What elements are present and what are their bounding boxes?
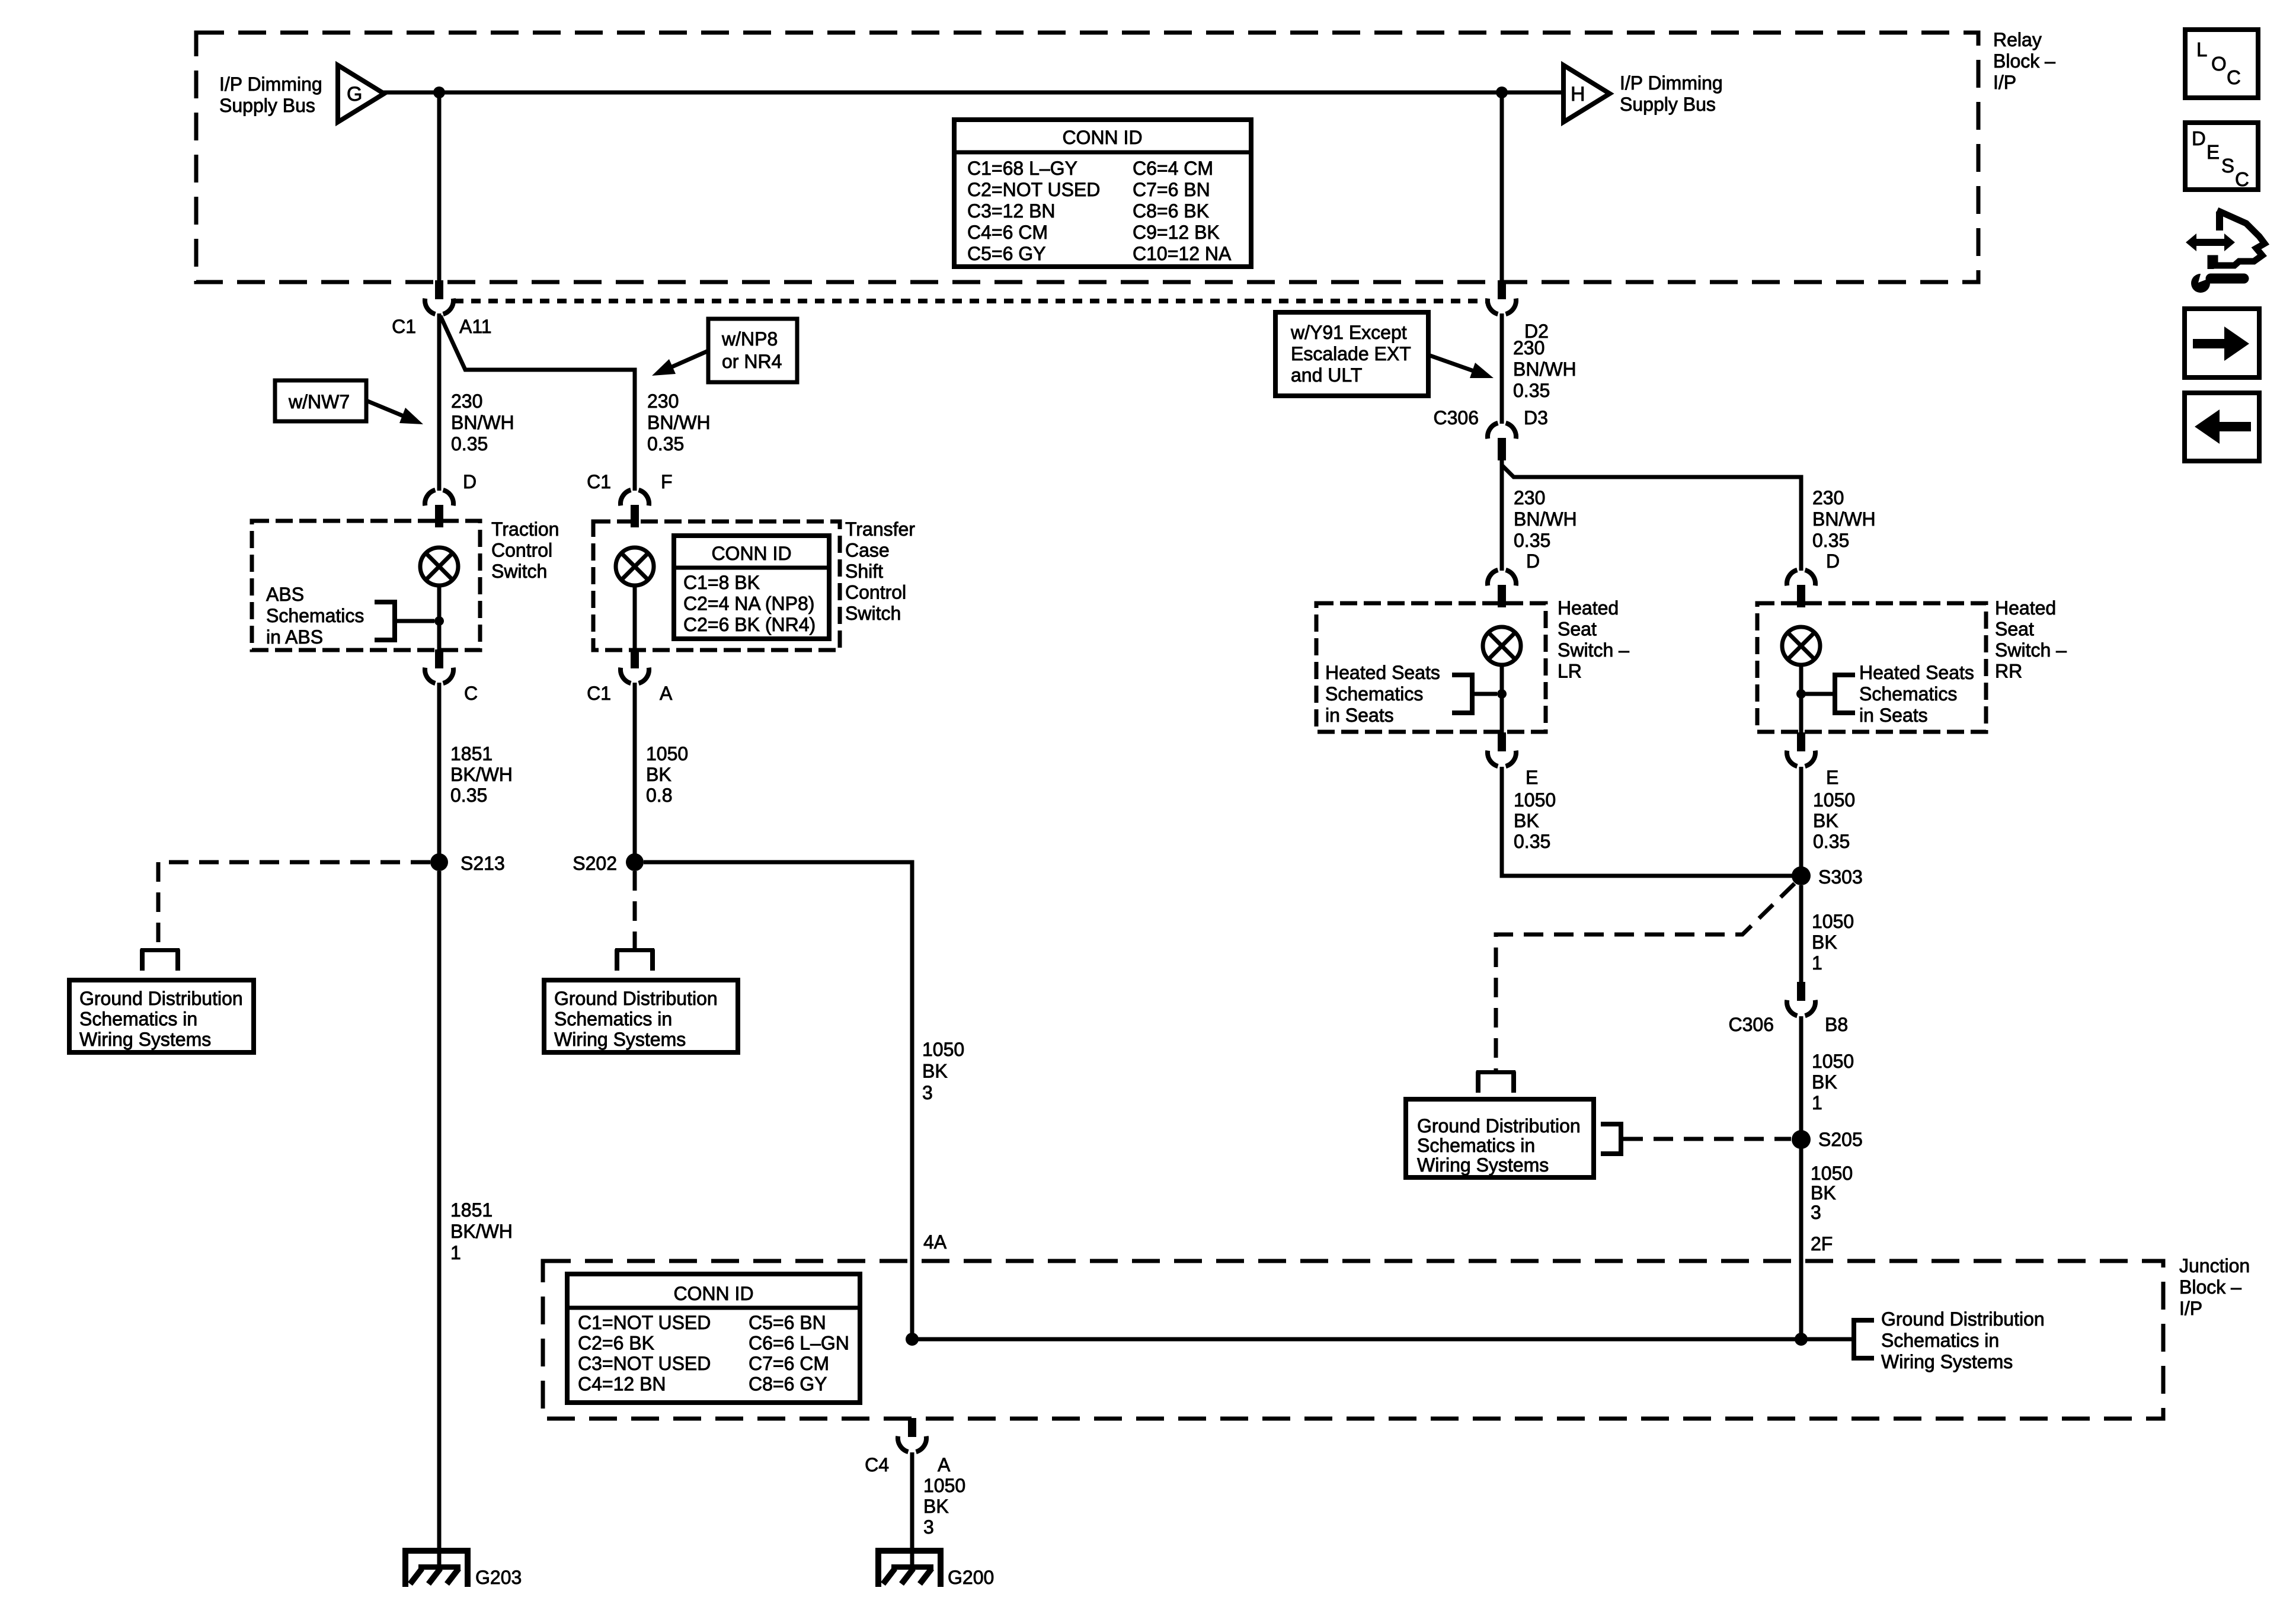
- svg-text:BK: BK: [1812, 1071, 1837, 1093]
- svg-text:Schematics in: Schematics in: [554, 1009, 672, 1030]
- svg-text:0.35: 0.35: [1513, 380, 1550, 401]
- wire lamp to connector E (LR): [1500, 664, 1504, 733]
- svg-text:BK: BK: [646, 764, 671, 785]
- svg-text:Shift: Shift: [845, 561, 883, 582]
- label 1851 BK/WH 0.35: [450, 743, 513, 806]
- wire I/P dimming supply bus: [383, 91, 1563, 95]
- svg-text:S202: S202: [573, 853, 617, 874]
- ground distribution schematics box (middle): [544, 980, 738, 1052]
- label D pin: [463, 471, 477, 492]
- svg-text:230: 230: [1812, 487, 1844, 508]
- wire 1050 BK to S303 (RR): [1799, 767, 1803, 876]
- label Ground Distribution Schematics in Wiring Systems (junction): [1881, 1308, 2045, 1372]
- svg-text:S: S: [2221, 155, 2234, 177]
- svg-text:Schematics in: Schematics in: [1417, 1135, 1535, 1156]
- connector C4/A junction block: [898, 1418, 926, 1452]
- svg-text:1050: 1050: [1811, 1163, 1853, 1184]
- svg-text:Seat: Seat: [1558, 619, 1597, 640]
- svg-text:Switch: Switch: [491, 561, 547, 582]
- icon LOC box: [2185, 30, 2258, 98]
- svg-text:C3=12 BN: C3=12 BN: [967, 200, 1056, 222]
- svg-text:1050: 1050: [1812, 1051, 1854, 1072]
- connector E heated seat RR: [1787, 732, 1815, 766]
- label E pin (RR): [1826, 767, 1838, 788]
- svg-text:C1=NOT USED: C1=NOT USED: [578, 1312, 711, 1333]
- node heated seats tap RR: [1796, 689, 1806, 699]
- ground distribution schematics box (left): [69, 980, 254, 1052]
- label C1 (F connector): [587, 471, 611, 492]
- label C306 (B8): [1729, 1014, 1774, 1035]
- svg-text:BK: BK: [1514, 810, 1539, 831]
- svg-text:G203: G203: [475, 1567, 522, 1588]
- wire bus to connector C1: [437, 92, 442, 283]
- svg-text:C8=6 GY: C8=6 GY: [749, 1374, 827, 1395]
- svg-text:w/NP8: w/NP8: [721, 328, 778, 350]
- svg-text:C2=6 BK (NR4): C2=6 BK (NR4): [683, 614, 816, 635]
- svg-text:3: 3: [1811, 1202, 1821, 1223]
- CONN ID table (transfer case): [674, 536, 829, 639]
- ground distribution cap bracket (left): [140, 948, 180, 971]
- svg-text:w/NW7: w/NW7: [288, 391, 350, 412]
- svg-text:w/Y91 Except: w/Y91 Except: [1290, 322, 1407, 343]
- wire bus to connector D2: [1500, 92, 1504, 283]
- label Traction Control Switch: [491, 518, 559, 582]
- wire B8 to S205: [1799, 1016, 1803, 1131]
- label A11: [459, 316, 492, 337]
- wire 1050 BK 3 to G200: [910, 1452, 914, 1551]
- svg-text:Relay: Relay: [1993, 29, 2042, 50]
- label C1 (A connector): [587, 683, 611, 704]
- svg-text:2F: 2F: [1811, 1233, 1833, 1254]
- svg-text:Block –: Block –: [2179, 1276, 2241, 1298]
- wire 230 BN/WH to traction switch: [437, 313, 442, 491]
- svg-text:C1: C1: [587, 471, 611, 492]
- svg-text:0.8: 0.8: [646, 785, 672, 806]
- icon forward arrow box: [2185, 309, 2259, 377]
- splice S205: [1792, 1130, 1811, 1149]
- splice S213: [430, 853, 448, 871]
- svg-text:D: D: [1826, 550, 1840, 572]
- svg-text:D3: D3: [1524, 407, 1548, 428]
- svg-text:C7=6 CM: C7=6 CM: [749, 1353, 829, 1374]
- svg-text:BN/WH: BN/WH: [1812, 508, 1876, 530]
- svg-text:S205: S205: [1818, 1129, 1863, 1150]
- svg-text:1050: 1050: [1813, 789, 1855, 811]
- connector C1/A transfer case: [621, 649, 649, 683]
- node ABS tap: [434, 616, 444, 626]
- ground G200: [875, 1548, 994, 1588]
- svg-text:230: 230: [647, 391, 679, 412]
- wire lamp to connector E (RR): [1799, 664, 1803, 733]
- svg-text:C4: C4: [865, 1454, 889, 1475]
- svg-text:BN/WH: BN/WH: [647, 412, 711, 433]
- wire 1851 BK/WH to S213: [437, 683, 442, 854]
- svg-text:1: 1: [1812, 1092, 1822, 1113]
- label 1050 BK 0.35 (LR): [1514, 789, 1556, 852]
- label I/P Dimming Supply Bus (right): [1620, 72, 1723, 115]
- connector D traction switch: [425, 490, 453, 527]
- label 1050 BK 1 (B8): [1812, 1051, 1854, 1113]
- indicator lamp traction switch: [420, 548, 458, 585]
- wire branch A11 to transfer case: [440, 316, 635, 491]
- svg-text:C4=12 BN: C4=12 BN: [578, 1374, 666, 1395]
- svg-text:CONN ID: CONN ID: [673, 1283, 753, 1304]
- svg-text:Switch: Switch: [845, 603, 901, 624]
- svg-text:0.35: 0.35: [1812, 530, 1849, 551]
- svg-text:C6=6 L–GN: C6=6 L–GN: [749, 1333, 849, 1354]
- svg-text:D: D: [2192, 127, 2206, 149]
- icon DESC box: [2185, 123, 2258, 190]
- label 230 BN/WH 0.35 (left): [451, 391, 514, 454]
- svg-text:C10=12 NA: C10=12 NA: [1133, 243, 1232, 264]
- svg-text:G200: G200: [948, 1567, 994, 1588]
- callout w/NP8 or NR4: [652, 319, 797, 382]
- svg-text:1050: 1050: [646, 743, 688, 764]
- label C pin: [464, 683, 478, 704]
- svg-text:1: 1: [450, 1242, 461, 1263]
- svg-text:C4=6 CM: C4=6 CM: [967, 222, 1048, 243]
- label Transfer Case Shift Control Switch: [845, 518, 915, 624]
- icon diagnostic wrench: [2186, 210, 2265, 293]
- CONN ID table (junction block): [567, 1274, 860, 1403]
- svg-text:BK/WH: BK/WH: [450, 1221, 513, 1242]
- svg-text:D: D: [1526, 550, 1540, 572]
- connector C306 D3: [1488, 423, 1516, 460]
- label A pin (C4): [938, 1454, 951, 1475]
- svg-text:Ground Distribution: Ground Distribution: [1417, 1115, 1581, 1137]
- svg-text:BK/WH: BK/WH: [450, 764, 513, 785]
- label S205: [1818, 1129, 1863, 1150]
- label Heated Seats Schematics in Seats (LR): [1325, 662, 1440, 726]
- label E pin (LR): [1526, 767, 1538, 788]
- svg-text:A: A: [660, 683, 673, 704]
- svg-text:1: 1: [1812, 952, 1822, 974]
- svg-text:Control: Control: [845, 582, 906, 603]
- CONN ID table (relay block): [954, 120, 1251, 267]
- svg-text:E: E: [2207, 141, 2220, 163]
- dashed wire S213 to ground distribution: [158, 862, 430, 948]
- svg-text:230: 230: [1513, 337, 1544, 359]
- svg-text:BN/WH: BN/WH: [451, 412, 514, 433]
- wire D2 to D3: [1500, 313, 1504, 424]
- svg-text:BK: BK: [922, 1061, 948, 1082]
- svg-text:D: D: [463, 471, 477, 492]
- svg-text:3: 3: [923, 1516, 934, 1538]
- svg-text:LR: LR: [1558, 661, 1582, 682]
- svg-text:C1: C1: [392, 316, 416, 337]
- label 1050 BK 1 (S303): [1812, 911, 1854, 974]
- label Heated Seat Switch - RR: [1995, 597, 2067, 682]
- splice S303: [1792, 866, 1811, 885]
- label B8: [1825, 1014, 1848, 1035]
- svg-text:C1: C1: [587, 683, 611, 704]
- svg-text:C9=12 BK: C9=12 BK: [1133, 222, 1220, 243]
- svg-text:Schematics: Schematics: [266, 605, 364, 626]
- svg-text:Transfer: Transfer: [845, 518, 915, 540]
- svg-text:and ULT: and ULT: [1291, 364, 1362, 386]
- svg-text:C2=NOT USED: C2=NOT USED: [967, 179, 1100, 200]
- svg-text:C: C: [464, 683, 478, 704]
- svg-text:or NR4: or NR4: [722, 351, 782, 372]
- svg-text:BK: BK: [1812, 932, 1837, 953]
- svg-text:C2=6 BK: C2=6 BK: [578, 1333, 654, 1354]
- wire 1050 BK 3 S202 to junction block: [644, 862, 912, 1340]
- label ABS Schematics in ABS: [266, 584, 364, 648]
- heated seat switch RR dashed box: [1757, 603, 1986, 732]
- ground distribution cap bracket (middle): [615, 948, 655, 971]
- svg-text:Supply Bus: Supply Bus: [219, 95, 315, 116]
- svg-text:Heated: Heated: [1995, 597, 2056, 619]
- svg-text:A11: A11: [459, 316, 492, 337]
- dashed wire bracket to S205: [1623, 1137, 1791, 1141]
- label 230 BN/WH 0.35 (branch): [647, 391, 711, 454]
- svg-text:BK: BK: [1813, 810, 1838, 831]
- connector D heated seat RR: [1787, 570, 1815, 607]
- svg-text:S213: S213: [461, 853, 505, 874]
- label S303: [1818, 866, 1863, 888]
- label 1050 BK 3 (G200): [923, 1475, 965, 1538]
- svg-text:CONN ID: CONN ID: [1062, 127, 1142, 148]
- label D pin (RR): [1826, 550, 1840, 572]
- label 1050 BK 3 (S205): [1811, 1163, 1853, 1223]
- svg-text:Supply Bus: Supply Bus: [1620, 94, 1716, 115]
- label I/P Dimming Supply Bus (left): [219, 73, 322, 116]
- label D3: [1524, 407, 1548, 428]
- heated seats schematics bracket RR: [1801, 673, 1855, 715]
- svg-text:Schematics in: Schematics in: [79, 1009, 197, 1030]
- connector C306 B8: [1787, 982, 1815, 1016]
- svg-text:C306: C306: [1729, 1014, 1774, 1035]
- callout w/Y91 Except Escalade EXT and ULT: [1275, 312, 1494, 396]
- svg-text:1050: 1050: [1812, 911, 1854, 932]
- label 230 BN/WH 0.35 (LR): [1514, 487, 1577, 551]
- ground distribution bracket (junction block): [1851, 1318, 1874, 1361]
- label 1050 BK 3 (S202 drop): [922, 1039, 964, 1103]
- ground distribution schematics box (right): [1406, 1099, 1594, 1177]
- svg-text:Control: Control: [491, 540, 552, 561]
- svg-text:0.35: 0.35: [647, 433, 684, 454]
- svg-text:E: E: [1826, 767, 1838, 788]
- svg-text:O: O: [2211, 53, 2227, 75]
- wire lamp to connector A: [633, 585, 637, 651]
- label 1851 BK/WH 1: [450, 1199, 513, 1263]
- svg-text:CONN ID: CONN ID: [711, 543, 791, 564]
- wire 1050 BK to S202: [633, 683, 637, 854]
- dashed wire S303 to ground distribution: [1496, 884, 1795, 1070]
- svg-text:C2=4 NA (NP8): C2=4 NA (NP8): [683, 593, 814, 614]
- svg-text:C1=68 L–GY: C1=68 L–GY: [967, 158, 1077, 179]
- wire 1851 BK/WH 1 to G203: [437, 871, 442, 1551]
- svg-text:Wiring Systems: Wiring Systems: [1881, 1351, 2013, 1372]
- indicator lamp heated seat LR: [1483, 627, 1521, 665]
- label S213: [461, 853, 505, 874]
- dotted connector line between C1 and D2: [454, 299, 1487, 303]
- svg-text:L: L: [2196, 39, 2207, 60]
- wire to ground distribution bracket: [1801, 1337, 1851, 1342]
- wire 1050 BK 1 to C306 B8: [1799, 885, 1803, 982]
- label Relay Block - I/P: [1993, 29, 2055, 93]
- splice S202: [626, 853, 644, 871]
- svg-text:Schematics: Schematics: [1859, 683, 1957, 705]
- svg-text:0.35: 0.35: [450, 785, 487, 806]
- svg-text:Wiring Systems: Wiring Systems: [79, 1029, 211, 1050]
- label Heated Seat Switch - LR: [1558, 597, 1629, 682]
- svg-text:I/P Dimming: I/P Dimming: [219, 73, 322, 95]
- svg-text:I/P: I/P: [1993, 72, 2016, 93]
- label D2: [1524, 321, 1549, 342]
- svg-text:0.35: 0.35: [451, 433, 488, 454]
- callout w/NW7: [275, 380, 423, 424]
- off-page connector G (I/P Dimming Supply Bus): [338, 65, 384, 122]
- off-page connector H (I/P Dimming Supply Bus): [1563, 65, 1610, 122]
- svg-text:Ground Distribution: Ground Distribution: [554, 988, 718, 1009]
- svg-text:H: H: [1571, 83, 1585, 105]
- svg-text:C8=6 BK: C8=6 BK: [1133, 200, 1209, 222]
- label C4: [865, 1454, 889, 1475]
- connector D heated seat LR: [1488, 570, 1516, 607]
- svg-text:Heated Seats: Heated Seats: [1325, 662, 1440, 683]
- wire D3 down to heated seat LR: [1500, 459, 1504, 571]
- label 2F pin: [1811, 1233, 1833, 1254]
- ABS schematics bracket: [375, 600, 434, 642]
- label S202: [573, 853, 617, 874]
- transfer case switch dashed box: [593, 521, 840, 650]
- node junction block left: [906, 1333, 919, 1346]
- svg-text:Case: Case: [845, 540, 890, 561]
- relay block I/P dashed boundary: [196, 33, 1978, 282]
- junction node on bus at x=2534: [1496, 87, 1508, 98]
- svg-text:C: C: [2227, 66, 2241, 88]
- svg-text:1851: 1851: [450, 743, 493, 764]
- svg-text:C5=6 BN: C5=6 BN: [749, 1312, 826, 1333]
- svg-text:B8: B8: [1825, 1014, 1848, 1035]
- label D pin (LR): [1526, 550, 1540, 572]
- heated seat switch LR dashed box: [1316, 603, 1546, 732]
- svg-text:0.35: 0.35: [1514, 831, 1550, 852]
- label 1050 BK 0.8: [646, 743, 688, 806]
- label 230 BN/WH 0.35 (RR): [1812, 487, 1876, 551]
- svg-text:E: E: [1526, 767, 1538, 788]
- svg-text:C306: C306: [1434, 407, 1479, 428]
- svg-text:Schematics in: Schematics in: [1881, 1330, 1999, 1351]
- svg-text:Switch –: Switch –: [1995, 639, 2067, 661]
- heated seats schematics bracket LR: [1452, 673, 1497, 715]
- indicator lamp transfer case switch: [616, 548, 654, 585]
- svg-text:A: A: [938, 1454, 951, 1475]
- svg-text:G: G: [347, 83, 362, 105]
- svg-text:ABS: ABS: [266, 584, 304, 605]
- svg-text:C1=8 BK: C1=8 BK: [683, 572, 760, 593]
- svg-text:Traction: Traction: [491, 518, 559, 540]
- svg-text:Heated Seats: Heated Seats: [1859, 662, 1974, 683]
- svg-text:C7=6 BN: C7=6 BN: [1133, 179, 1210, 200]
- svg-text:I/P: I/P: [2179, 1298, 2202, 1319]
- connector E heated seat LR: [1488, 732, 1516, 766]
- svg-text:Ground Distribution: Ground Distribution: [79, 988, 243, 1009]
- svg-text:1851: 1851: [450, 1199, 493, 1221]
- svg-text:1050: 1050: [1514, 789, 1556, 811]
- svg-text:BK: BK: [1811, 1182, 1836, 1204]
- svg-text:0.35: 0.35: [1514, 530, 1550, 551]
- svg-text:in Seats: in Seats: [1325, 705, 1394, 726]
- svg-text:1050: 1050: [923, 1475, 965, 1496]
- label C1 (A11 connector): [392, 316, 416, 337]
- ground G203: [402, 1548, 522, 1588]
- svg-text:BK: BK: [923, 1496, 949, 1517]
- svg-text:Wiring Systems: Wiring Systems: [1417, 1154, 1549, 1176]
- indicator lamp heated seat RR: [1782, 627, 1820, 665]
- label C306 (D3): [1434, 407, 1479, 428]
- svg-text:RR: RR: [1995, 661, 2022, 682]
- svg-text:Escalade EXT: Escalade EXT: [1291, 343, 1411, 364]
- label A pin: [660, 683, 673, 704]
- svg-text:0.35: 0.35: [1813, 831, 1850, 852]
- svg-text:Seat: Seat: [1995, 619, 2034, 640]
- dashed wire S202 to ground distribution: [633, 871, 637, 948]
- svg-text:F: F: [661, 471, 673, 492]
- wire lamp to connector C inside switch: [437, 585, 442, 651]
- svg-text:C6=4 CM: C6=4 CM: [1133, 158, 1213, 179]
- svg-text:C: C: [2235, 168, 2249, 190]
- label Heated Seats Schematics in Seats (RR): [1859, 662, 1974, 726]
- svg-text:Switch –: Switch –: [1558, 639, 1629, 661]
- traction control switch dashed box: [252, 521, 480, 650]
- label 1050 BK 0.35 (RR): [1813, 789, 1855, 852]
- node junction block right: [1795, 1333, 1808, 1346]
- label F pin: [661, 471, 673, 492]
- svg-text:I/P Dimming: I/P Dimming: [1620, 72, 1723, 94]
- svg-text:230: 230: [451, 391, 482, 412]
- svg-text:S303: S303: [1818, 866, 1863, 888]
- label Junction Block - I/P: [2179, 1255, 2250, 1319]
- svg-text:4A: 4A: [923, 1231, 947, 1253]
- svg-text:in Seats: in Seats: [1859, 705, 1928, 726]
- wire internal junction block: [912, 1337, 1801, 1342]
- svg-text:Junction: Junction: [2179, 1255, 2250, 1276]
- connector C traction switch: [425, 649, 453, 683]
- label 4A pin: [923, 1231, 947, 1253]
- connector D2: [1488, 280, 1516, 314]
- connector C1/A11: [425, 280, 453, 314]
- svg-text:in ABS: in ABS: [266, 626, 323, 648]
- svg-text:C3=NOT USED: C3=NOT USED: [578, 1353, 711, 1374]
- node heated seats tap LR: [1497, 689, 1507, 699]
- svg-text:Schematics: Schematics: [1325, 683, 1423, 705]
- svg-text:3: 3: [922, 1082, 933, 1103]
- svg-text:Wiring Systems: Wiring Systems: [554, 1029, 686, 1050]
- junction block I/P dashed boundary: [543, 1261, 2163, 1419]
- ground distribution bracket (S205): [1601, 1122, 1623, 1156]
- connector C1/F transfer case: [621, 490, 649, 527]
- ground distribution cap bracket (right): [1476, 1070, 1516, 1093]
- wire 1050 BK 3 S205 to junction block: [1799, 1148, 1803, 1339]
- svg-text:C5=6 GY: C5=6 GY: [967, 243, 1046, 264]
- wire 1050 BK to S303 (LR): [1502, 767, 1793, 876]
- svg-text:1050: 1050: [922, 1039, 964, 1060]
- junction node on bus at x=741: [433, 87, 445, 98]
- svg-text:Ground Distribution: Ground Distribution: [1881, 1308, 2045, 1330]
- label 230 BN/WH 0.35 (D2): [1513, 337, 1576, 401]
- icon back arrow box: [2185, 393, 2259, 461]
- svg-text:BN/WH: BN/WH: [1514, 508, 1577, 530]
- svg-text:Block –: Block –: [1993, 50, 2055, 72]
- svg-text:230: 230: [1514, 487, 1545, 508]
- wire branch to heated seat RR: [1502, 465, 1801, 571]
- svg-text:Heated: Heated: [1558, 597, 1619, 619]
- svg-text:BN/WH: BN/WH: [1513, 359, 1576, 380]
